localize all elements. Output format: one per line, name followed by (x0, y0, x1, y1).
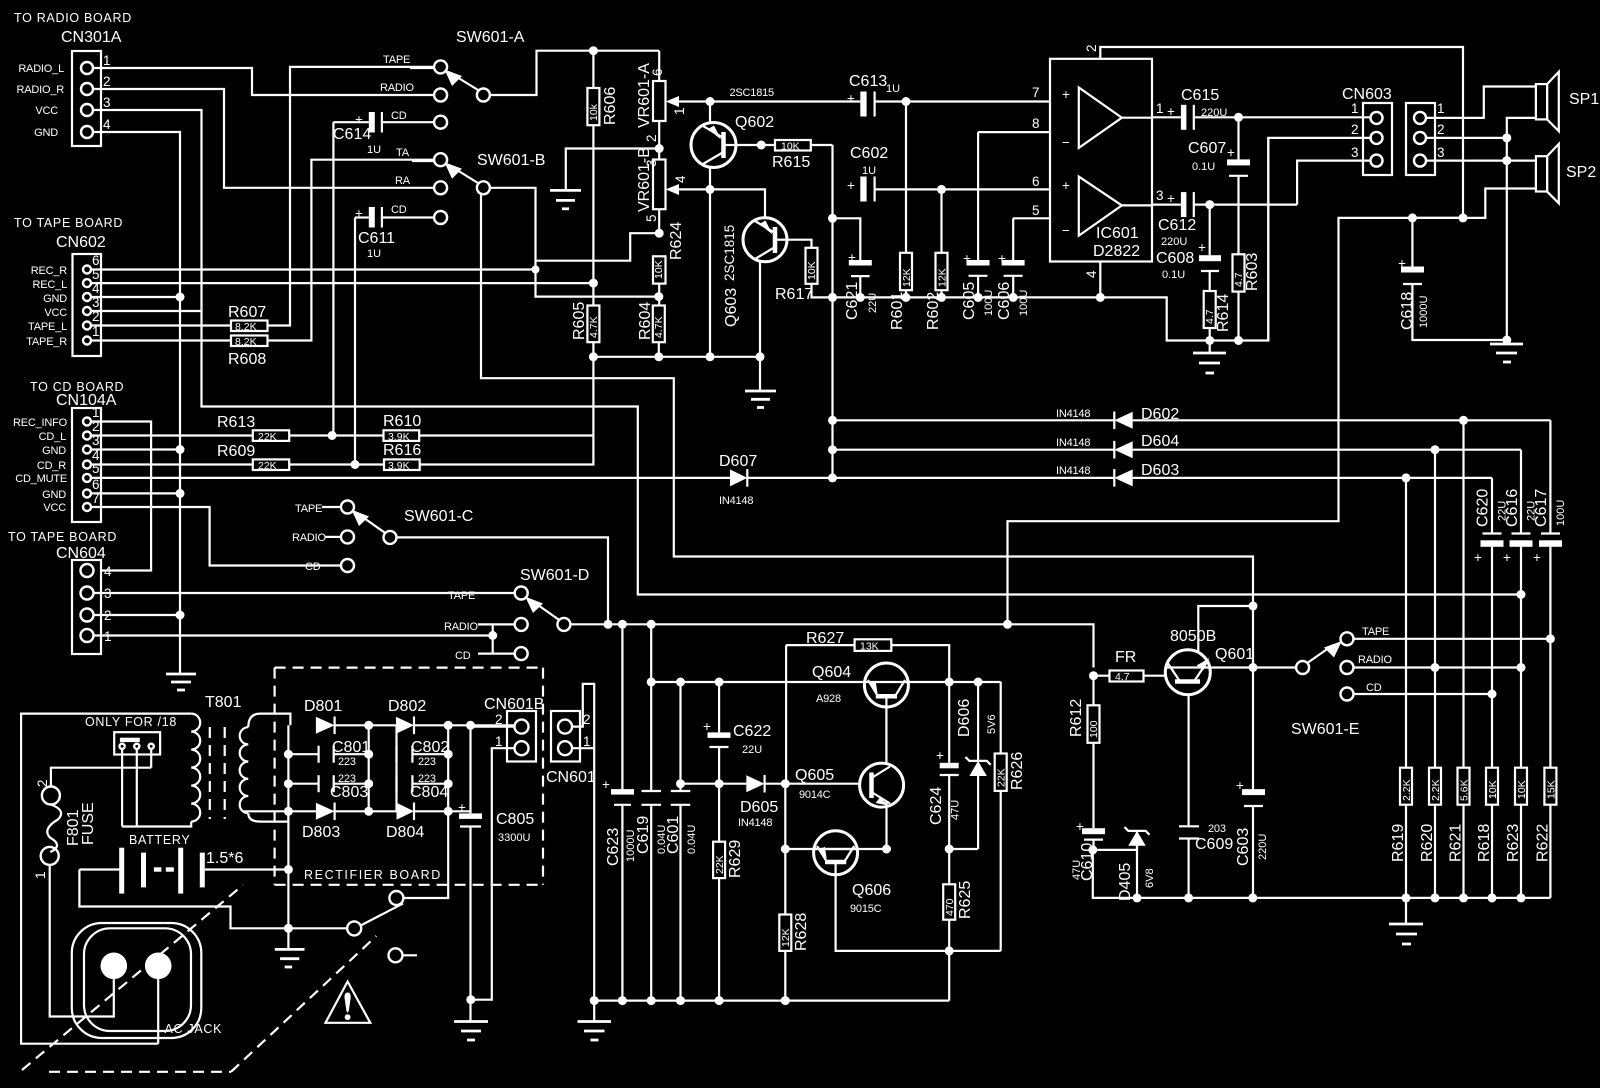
svg-text:CD_L: CD_L (39, 431, 66, 443)
node junction bus/R620 (1431, 893, 1440, 902)
resistor FR 4.7 (1110, 649, 1166, 683)
node junction C803 right (364, 779, 373, 788)
node junction bus/CN601 (590, 996, 599, 1005)
svg-text:D604: D604 (1141, 433, 1179, 450)
svg-text:RECTIFIER BOARD: RECTIFIER BOARD (304, 868, 442, 882)
node junction C801 right (364, 750, 373, 759)
node junction emitter line / C603 (1249, 663, 1258, 672)
node junction TAPE/R622 (1546, 634, 1555, 643)
wire R608 to SW601-B TA contact (268, 160, 435, 341)
wire rectifier riser to chassis ground (287, 870, 289, 950)
svg-text:TAPE: TAPE (1362, 626, 1389, 638)
svg-text:CD: CD (391, 110, 407, 122)
node junction mute/D604 (828, 445, 837, 454)
svg-text:VCC: VCC (43, 502, 66, 514)
svg-text:R609: R609 (217, 443, 255, 460)
resistor R604 4.7K (637, 302, 665, 357)
svg-text:0.1U: 0.1U (1162, 269, 1185, 281)
svg-text:D605: D605 (740, 799, 778, 816)
svg-text:REC_L: REC_L (33, 279, 68, 291)
resistor R618 10K (1476, 768, 1499, 898)
svg-text:CN104A: CN104A (56, 392, 117, 409)
svg-text:VCC: VCC (35, 105, 58, 117)
svg-text:+: + (1533, 550, 1541, 565)
wire Q602 emitter down across to bus (709, 168, 711, 357)
resistor R629 22K (713, 840, 744, 1001)
node junction R628 column / Q606 row (781, 845, 790, 854)
capacitor C608 0.1U (1156, 205, 1221, 291)
svg-text:220U: 220U (1257, 834, 1269, 860)
capacitor C620 22U (1474, 478, 1509, 768)
node junction bus/R621 (1459, 893, 1468, 902)
node junction D605/R627/R628 (781, 779, 790, 788)
svg-text:R616: R616 (383, 442, 421, 459)
wire R619 drop (1405, 478, 1407, 768)
svg-text:R617: R617 (775, 286, 813, 303)
node junction bus/C618 riser (1003, 620, 1012, 629)
wire bridge right riser to switch (447, 725, 449, 899)
svg-text:R621: R621 (1448, 824, 1465, 862)
node junction VR601-A/VR601-B tie (655, 144, 664, 153)
transistor Q601 8050B (1165, 628, 1254, 695)
resistor R627 13K (786, 630, 949, 784)
svg-text:0.1U: 0.1U (1192, 161, 1215, 173)
svg-text:5: 5 (644, 214, 659, 222)
resistor R625 470 (943, 881, 974, 1001)
node junction mute column / amp ground bus (828, 293, 837, 302)
wire C611 down to CD_R (354, 218, 356, 465)
wire SW601-E TAPE line (1354, 638, 1551, 640)
wire TAPE_R CN602-1 to R608 (91, 339, 231, 341)
svg-text:FR: FR (1115, 649, 1136, 666)
wire R621 drop (1462, 420, 1464, 767)
svg-text:2: 2 (644, 134, 659, 142)
transistor Q603 2SC1815 (722, 218, 787, 327)
node junction CD/R618 (1488, 690, 1497, 699)
node junction supply/C619 (647, 678, 656, 687)
resistor R615 10K (772, 140, 833, 171)
svg-text:C622: C622 (733, 723, 771, 740)
svg-text:+: + (1198, 240, 1206, 255)
svg-text:22K: 22K (996, 768, 1008, 787)
wire VR601 tie to ground stub (566, 149, 659, 191)
node junction bus/R619 (1402, 893, 1411, 902)
diode D801 (304, 698, 396, 734)
svg-text:12K: 12K (780, 928, 792, 947)
svg-text:RA: RA (395, 175, 411, 187)
potentiometer VR601-A (636, 51, 710, 160)
svg-text:CN603: CN603 (1342, 86, 1392, 103)
wire Q601 collector up to feed (1198, 606, 1253, 653)
svg-text:R624: R624 (668, 222, 685, 260)
svg-text:TAPE: TAPE (448, 590, 475, 602)
svg-text:CD: CD (391, 204, 407, 216)
svg-text:8.2K: 8.2K (235, 336, 257, 348)
svg-text:R618: R618 (1476, 824, 1493, 862)
svg-text:GND: GND (42, 489, 66, 501)
wire SW601-D radio/cd tie vertical (492, 624, 494, 653)
svg-text:R622: R622 (1534, 824, 1551, 862)
resistor R613 22K (217, 414, 289, 443)
svg-text:SW601-B: SW601-B (477, 152, 545, 169)
node junction CD_L / C614 (328, 431, 337, 440)
wire CN604-3 TAPE line to SW601-D (94, 592, 515, 594)
speaker SP1 (1536, 72, 1599, 131)
svg-text:22U: 22U (1526, 501, 1538, 521)
svg-text:C609: C609 (1195, 836, 1233, 853)
wire Q601 emitter down to bus (1187, 695, 1189, 827)
resistor R623 10K (1505, 768, 1528, 898)
svg-text:D802: D802 (388, 698, 426, 715)
svg-text:5.6K: 5.6K (1459, 779, 1471, 801)
wire SW601-B common right and down (mute path) (490, 188, 659, 297)
resistor R616 3.9K (383, 442, 421, 472)
svg-text:Q606: Q606 (852, 882, 891, 899)
svg-text:RADIO: RADIO (444, 621, 478, 633)
svg-text:CD_R: CD_R (37, 460, 66, 472)
node junction mute column / C621 (828, 214, 837, 223)
svg-text:223: 223 (338, 756, 356, 768)
warning triangle (326, 982, 371, 1023)
node junction bus/C619 (647, 996, 656, 1005)
svg-text:22U: 22U (867, 293, 879, 313)
svg-text:R604: R604 (637, 302, 654, 340)
node junction top feed corner (1459, 213, 1468, 222)
node junction C803 left (284, 779, 293, 788)
node junction bus/R618 (1488, 893, 1497, 902)
svg-text:1: 1 (103, 53, 111, 68)
svg-text:C619: C619 (635, 816, 652, 854)
ground symbol speaker (1490, 340, 1523, 362)
power switch spare contact (389, 948, 418, 962)
node junction Q602 emitter/VR601-B wiper (706, 185, 715, 194)
fuse F801 (33, 768, 151, 879)
node junction mute/D602 (828, 416, 837, 425)
node junction mute/D603 line (828, 473, 837, 482)
node junction C618 top (1408, 213, 1417, 222)
wire RADIO_R to SW601-B RA contact (93, 89, 434, 188)
resistor R628 12K (779, 784, 810, 1001)
svg-text:T801: T801 (205, 694, 242, 711)
power switch contact A (389, 891, 448, 905)
svg-text:C612: C612 (1158, 217, 1196, 234)
svg-text:D405: D405 (1117, 863, 1134, 901)
svg-text:TO TAPE BOARD: TO TAPE BOARD (8, 530, 117, 544)
svg-text:C608: C608 (1156, 250, 1194, 267)
wire C610 node to D405 (1093, 849, 1137, 851)
node junction bus/Q601 emitter (1184, 893, 1193, 902)
svg-text:+: + (1474, 550, 1482, 565)
svg-text:1: 1 (495, 734, 503, 749)
node junction GND/CN602-4 (176, 293, 185, 302)
svg-text:−: − (1062, 135, 1070, 150)
wire SP ground drop (1506, 138, 1508, 340)
connector CN603 (1342, 86, 1445, 175)
ground symbol amp output (1193, 341, 1226, 374)
capacitor C610 47U (1071, 819, 1105, 881)
dashed interlock line to switch (231, 936, 376, 1072)
wire Q606 base up / emitter row (785, 848, 886, 850)
svg-text:IN4148: IN4148 (1056, 408, 1090, 420)
svg-text:6: 6 (1032, 174, 1040, 189)
svg-text:2: 2 (1437, 122, 1445, 137)
svg-text:R614: R614 (1215, 294, 1232, 332)
node junction pin6 line / R602 (937, 185, 946, 194)
wire Q603 base to R617 (786, 240, 812, 248)
capacitor C614 1U (333, 110, 434, 156)
svg-text:3.9K: 3.9K (388, 460, 410, 472)
node junction bus/C623 (618, 996, 627, 1005)
svg-text:C602: C602 (850, 145, 888, 162)
node junction D801 cathode (364, 721, 373, 730)
svg-text:RADIO_R: RADIO_R (17, 84, 65, 96)
svg-text:1: 1 (33, 871, 48, 879)
rectifier board dashed box (275, 668, 543, 885)
svg-text:223: 223 (418, 756, 436, 768)
svg-text:8050B: 8050B (1170, 628, 1216, 645)
node junction bus/R628 (781, 996, 790, 1005)
svg-text:4: 4 (103, 117, 111, 132)
connector CN301A (17, 29, 122, 146)
wire GND CN104A-6 (91, 492, 180, 494)
svg-text:6: 6 (92, 253, 100, 268)
capacitor C613 1U (847, 73, 1050, 117)
ground symbol C805 (454, 1022, 488, 1041)
svg-text:R612: R612 (1068, 699, 1085, 737)
svg-text:8.2K: 8.2K (235, 321, 257, 333)
node junction gnd bus / R603 (1234, 336, 1243, 345)
svg-text:BATTERY: BATTERY (129, 833, 190, 847)
wire Q601 emitter line to SW601-E common (1210, 666, 1296, 668)
wire D602 line (833, 419, 1115, 421)
svg-text:1U: 1U (367, 144, 381, 156)
node junction CN604-1/tie (488, 631, 497, 640)
wire CN603 pin2 left to C612 node (1268, 138, 1372, 341)
node junction bus/R629 (715, 996, 724, 1005)
svg-text:R608: R608 (228, 351, 266, 368)
svg-text:2: 2 (583, 712, 591, 727)
svg-text:+: + (1503, 550, 1511, 565)
node junction C624 / Q606 row (945, 845, 954, 854)
node junction supply/C622 (715, 678, 724, 687)
svg-text:SW601-E: SW601-E (1291, 721, 1359, 738)
capacitor C805 3300U (458, 725, 534, 1021)
wire supply line y=682 (651, 624, 1001, 682)
svg-text:+: + (1227, 145, 1235, 160)
node junction CD_R / C611 (351, 460, 360, 469)
svg-text:10k: 10k (588, 103, 600, 121)
resistor R603 4.7 (1233, 253, 1262, 341)
svg-text:TAPE: TAPE (383, 54, 410, 66)
wire C612 line up to CN603 pin3 (1297, 161, 1372, 205)
wire SP2 return to top feed (1412, 189, 1536, 218)
title TO TAPE BOARD (14, 216, 123, 230)
svg-text:C803: C803 (330, 784, 368, 801)
wire IC pin5 line (1013, 217, 1050, 219)
svg-text:VCC: VCC (44, 307, 67, 319)
wire GND from CN301A pin4 down (93, 132, 180, 674)
svg-text:+: + (458, 800, 466, 815)
node junction supply/D606 (974, 678, 983, 687)
svg-text:D2822: D2822 (1093, 243, 1140, 260)
wire CN601 pin2 to bottom bus (572, 684, 594, 1001)
svg-text:CD_MUTE: CD_MUTE (15, 473, 67, 485)
wire bottom-right ground bus (1093, 850, 1551, 898)
svg-text:RADIO: RADIO (1358, 654, 1392, 666)
svg-text:R610: R610 (383, 413, 421, 430)
svg-text:3: 3 (1437, 145, 1445, 160)
resistor R605 4.7K (571, 283, 600, 357)
svg-text:GND: GND (34, 127, 58, 139)
node junction supply/R627 right (945, 678, 954, 687)
wire bottom bus (594, 999, 949, 1001)
svg-text:D607: D607 (719, 453, 757, 470)
svg-text:IN4148: IN4148 (719, 495, 753, 507)
svg-text:C615: C615 (1181, 87, 1219, 104)
capacitor C617 100U (1533, 420, 1567, 767)
svg-text:47U: 47U (950, 800, 962, 820)
speaker SP2 (1536, 144, 1596, 203)
svg-text:8: 8 (1032, 116, 1040, 131)
wire REC_L from CN602-5 to R605/R606 node (91, 282, 593, 284)
wire bridge left riser (287, 725, 289, 870)
wire SW601-B mute jog to Q601 feed (481, 194, 1253, 667)
node junction C804 right (444, 779, 453, 788)
wire amp ground bus (833, 137, 1269, 340)
AC jack (72, 923, 222, 1038)
battery (79, 833, 288, 894)
title TO CD BOARD (30, 380, 124, 394)
wire CN603B pin2 to SP junction (1426, 137, 1507, 139)
diode D804 (386, 803, 471, 842)
svg-text:IN4148: IN4148 (738, 817, 772, 829)
connector CN104A (13, 392, 117, 522)
svg-text:10K: 10K (1487, 780, 1499, 799)
svg-text:CD: CD (455, 650, 471, 662)
wire GND CN104A-3 (91, 448, 180, 450)
node junction RADIO/R623 (1517, 663, 1526, 672)
svg-text:6: 6 (92, 477, 100, 492)
svg-text:RADIO: RADIO (380, 82, 414, 94)
wire bridge D802-anode riser (395, 725, 397, 811)
svg-text:−: − (1062, 223, 1070, 238)
wire VCC from CN301A pin3 down and right (93, 110, 1519, 595)
node junction bus/R605 (589, 352, 598, 361)
resistor R626 22K (995, 682, 1026, 951)
svg-text:3300U: 3300U (498, 832, 530, 844)
svg-text:22K: 22K (258, 431, 277, 443)
svg-text:R605: R605 (571, 302, 588, 340)
svg-text:+: + (847, 178, 855, 193)
svg-text:R613: R613 (217, 414, 255, 431)
svg-text:10K: 10K (781, 141, 800, 153)
svg-text:2: 2 (1084, 44, 1099, 52)
svg-text:C613: C613 (849, 73, 887, 90)
svg-text:1: 1 (1351, 101, 1359, 116)
node junction bus / C605 (974, 293, 983, 302)
title TO TAPE BOARD (CN604) (8, 530, 117, 544)
svg-text:R615: R615 (772, 154, 810, 171)
svg-text:D606: D606 (956, 699, 973, 737)
svg-text:22K: 22K (258, 460, 277, 472)
node junction bus / IC pin4 (1096, 293, 1105, 302)
capacitor C601 0.04U (665, 682, 698, 1001)
svg-text:4: 4 (673, 175, 688, 183)
svg-text:2: 2 (103, 74, 111, 89)
svg-text:Q603: Q603 (723, 288, 740, 327)
svg-text:Q601: Q601 (1215, 646, 1254, 663)
svg-text:CN601: CN601 (546, 769, 596, 786)
node junction base/R615 (757, 141, 766, 150)
svg-text:C614: C614 (333, 126, 371, 143)
transistor Q602 2SC1815 (691, 87, 774, 168)
node junction bus/SW601-C drop (604, 620, 613, 629)
svg-text:R625: R625 (957, 881, 974, 919)
svg-text:D801: D801 (304, 698, 342, 715)
wire TAPE_L CN602-2 to R607 (91, 324, 231, 326)
wire D605 line (681, 783, 747, 785)
resistor R617 10K (775, 248, 833, 303)
node junction Q605 emitter / C624 line (882, 845, 891, 854)
node junction VR601-B bottom (655, 229, 664, 238)
wire bridge center riser (368, 725, 370, 811)
svg-text:10K: 10K (1516, 780, 1528, 799)
svg-text:3: 3 (103, 95, 111, 110)
switch SW601-A (380, 29, 525, 129)
svg-text:Q605: Q605 (795, 767, 834, 784)
svg-text:+: + (1062, 87, 1070, 102)
svg-text:A928: A928 (816, 693, 841, 705)
svg-text:C805: C805 (496, 811, 534, 828)
node junction D803 cathode (364, 807, 373, 816)
svg-text:D603: D603 (1141, 462, 1179, 479)
svg-text:1U: 1U (367, 248, 381, 260)
wire CD_R line (91, 463, 253, 465)
svg-text:2: 2 (1351, 122, 1359, 137)
node junction bus/C623 drop (618, 620, 627, 629)
capacitor C607 0.1U (1188, 117, 1250, 254)
diode D604 IN4148 (1056, 433, 1521, 459)
resistor R620 2.2K (1419, 768, 1442, 898)
node junction D602 line / R621 (1459, 416, 1468, 425)
node junction C805/CN601B gnd (466, 995, 475, 1004)
wire CD_MUTE line to D607/D603 (91, 477, 730, 479)
svg-text:4.7K: 4.7K (653, 316, 665, 338)
dashed interlock line horizontal (49, 1071, 231, 1073)
potentiometer VR601-B (636, 147, 710, 233)
svg-text:D804: D804 (386, 824, 424, 841)
capacitor C803 223 (288, 773, 368, 801)
svg-text:1.5*6: 1.5*6 (206, 850, 243, 867)
svg-text:+: + (602, 777, 610, 792)
svg-text:+: + (936, 748, 944, 763)
diode D802 (388, 698, 515, 734)
svg-text:GND: GND (42, 445, 66, 457)
svg-text:IC601: IC601 (1096, 225, 1139, 242)
wire CD_L line (91, 434, 253, 436)
svg-text:5: 5 (92, 461, 100, 476)
node junction D804 cathode (444, 807, 453, 816)
resistor R607 8.2K (228, 304, 268, 333)
node junction bus / C621 (856, 293, 865, 302)
connector CN601B (484, 696, 544, 762)
wire D604 line (833, 449, 1115, 451)
svg-text:1000U: 1000U (1418, 296, 1430, 328)
node junction supply/C601 (676, 678, 685, 687)
diode D607 IN4148 (719, 453, 1114, 507)
switch SW601-C (292, 501, 473, 574)
capacitor C621 22U (833, 218, 880, 320)
